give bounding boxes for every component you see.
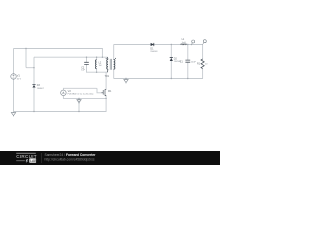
wire C1 column bbox=[187, 45, 189, 79]
probe flag 1 bbox=[192, 40, 195, 45]
footer bar bbox=[0, 151, 220, 165]
wire gnd stub bottom-left bbox=[13, 112, 15, 113]
ground below gate loop bbox=[77, 98, 81, 103]
svg-text:LAB: LAB bbox=[30, 159, 37, 163]
wire D2 column bbox=[170, 45, 172, 79]
svg-text:TR1: TR1 bbox=[105, 75, 110, 78]
wire R1 column bbox=[202, 45, 204, 79]
logo CIRCUIT bbox=[16, 152, 36, 154]
wire demag diode column bbox=[33, 57, 36, 111]
svg-text:1N4148: 1N4148 bbox=[150, 51, 158, 53]
svg-text:10uF: 10uF bbox=[191, 62, 197, 64]
junction dots bbox=[25, 44, 192, 112]
svg-text:PULSE(0 5 0 1u 1u 20u 40u): PULSE(0 5 0 1u 1u 20u 40u) bbox=[68, 94, 94, 96]
ground secondary bbox=[124, 80, 128, 84]
diode D3 (demagnetizing) bbox=[32, 85, 35, 88]
resistor R1 bbox=[201, 59, 204, 69]
wire V1 top lead bbox=[13, 49, 16, 74]
wire branch x26 bbox=[26, 49, 34, 68]
wire MOSFET source bbox=[105, 96, 107, 112]
svg-text:Samsheer24 / Forward Converter: Samsheer24 / Forward Converter bbox=[45, 153, 97, 157]
svg-text:http://circuitlab.com/c4589ddp: http://circuitlab.com/c4589ddp2rss bbox=[45, 158, 95, 162]
svg-text:1uH: 1uH bbox=[182, 42, 186, 44]
svg-text:1N4007: 1N4007 bbox=[37, 88, 45, 90]
inductor L2 (magnetizing) bbox=[95, 60, 96, 69]
wire secondary bottom lead bbox=[113, 69, 116, 78]
label D2 bbox=[174, 57, 182, 63]
wire secondary top lead bbox=[113, 45, 116, 60]
diode D1 (output series) bbox=[151, 43, 154, 46]
wire V2 stubs bbox=[62, 88, 64, 98]
wire gnd stub secondary bbox=[125, 79, 127, 80]
capacitor C1 bbox=[185, 60, 190, 62]
label V2 bbox=[68, 89, 94, 96]
svg-text:V1: V1 bbox=[17, 74, 21, 78]
label R1 bbox=[197, 63, 208, 66]
svg-text:1H: 1H bbox=[99, 65, 102, 67]
inductor L1 bbox=[181, 43, 187, 46]
wire secondary top rail bbox=[114, 44, 202, 46]
wire secondary bottom rail bbox=[114, 78, 202, 80]
wire gate loop bottom bbox=[63, 97, 106, 99]
ground bottom-left bbox=[11, 113, 15, 117]
logo bolt bbox=[26, 159, 29, 163]
wire V1 bottom lead bbox=[13, 79, 15, 111]
label D3 bbox=[37, 84, 45, 90]
probe flag 2 bbox=[203, 40, 207, 45]
wire block bottom bbox=[87, 71, 108, 73]
wire rail1 drop to primary bbox=[101, 49, 103, 58]
wire rail1 top bbox=[14, 48, 102, 50]
label V1 bbox=[17, 74, 22, 81]
wire gate-loop ground drop bbox=[78, 98, 80, 111]
svg-text:10 V: 10 V bbox=[17, 78, 22, 80]
wire MOSFET drain bbox=[105, 72, 107, 89]
label C2 bbox=[81, 66, 85, 71]
pulse source V2 bbox=[61, 90, 67, 96]
footer divider bbox=[41, 153, 43, 163]
wire bottom rail bbox=[14, 111, 107, 113]
wire cap C2 branch bbox=[86, 57, 88, 72]
voltage source V1 bbox=[11, 74, 17, 80]
svg-text:V2: V2 bbox=[68, 89, 72, 93]
capacitor C2 bbox=[84, 62, 89, 64]
transformer TR1 bbox=[106, 57, 116, 72]
svg-text:1uF: 1uF bbox=[81, 70, 85, 72]
label D1 bbox=[150, 48, 158, 54]
logo LAB chip bbox=[29, 158, 36, 162]
logo underline bbox=[16, 160, 25, 162]
label L2 bbox=[99, 61, 102, 67]
MOSFET M1 bbox=[101, 89, 106, 96]
label C1 bbox=[180, 61, 197, 64]
wire gate loop top bbox=[63, 88, 101, 93]
wire L2 stubs bbox=[96, 57, 98, 72]
wire rail2 bbox=[35, 56, 108, 58]
diode D2 (freewheeling) bbox=[170, 57, 173, 61]
label L1 bbox=[182, 38, 186, 44]
